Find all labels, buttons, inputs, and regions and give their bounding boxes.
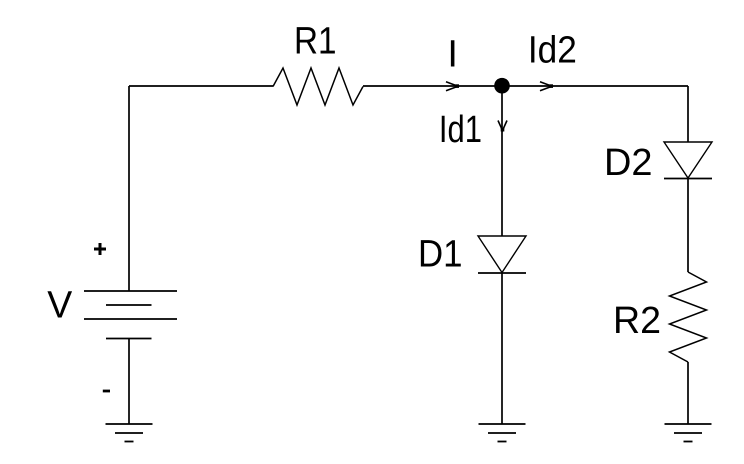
wire from R2 to right ground (687, 362, 689, 424)
current arrow Id1 (down) (498, 121, 507, 132)
label V (47, 284, 73, 326)
svg-text:R1: R1 (294, 21, 337, 63)
wire from battery to left ground (128, 339, 130, 425)
wire from D1 to middle ground (501, 273, 503, 424)
wire from D2 to R2 (687, 179, 689, 273)
diode D1 (478, 236, 526, 273)
node junction dot (494, 78, 510, 94)
svg-text:R2: R2 (613, 300, 661, 342)
resistor R1 (273, 68, 363, 105)
ground middle (479, 424, 526, 442)
label + (battery positive) (94, 243, 106, 255)
diode D2 (664, 142, 712, 179)
svg-text:D2: D2 (604, 142, 653, 184)
battery V plates (84, 291, 177, 339)
label I (447, 33, 458, 75)
label Id1 (439, 109, 482, 151)
wire top horizontal from corner to R1 (129, 85, 273, 87)
wire right vertical from corner to D2 (687, 86, 689, 142)
current arrow I (446, 82, 459, 91)
wire from node to top-right corner (502, 85, 688, 87)
wire middle vertical from node to D1 (501, 93, 503, 236)
label D1 (418, 234, 463, 276)
label R1 (294, 21, 337, 63)
resistor R2 (670, 272, 707, 362)
svg-text:V: V (47, 284, 73, 326)
svg-text:Id2: Id2 (528, 29, 577, 71)
label D2 (604, 142, 653, 184)
current arrow Id2 (540, 82, 553, 91)
label R2 (613, 300, 661, 342)
svg-text:Id1: Id1 (439, 109, 482, 151)
ground left (106, 424, 153, 442)
svg-text:I: I (447, 33, 458, 75)
label Id2 (528, 29, 577, 71)
wire from R1 to node (363, 85, 502, 87)
svg-text:D1: D1 (418, 234, 463, 276)
wire left vertical from top corner down to battery (128, 86, 130, 291)
label - (battery negative) (103, 390, 110, 393)
ground right (665, 424, 712, 442)
